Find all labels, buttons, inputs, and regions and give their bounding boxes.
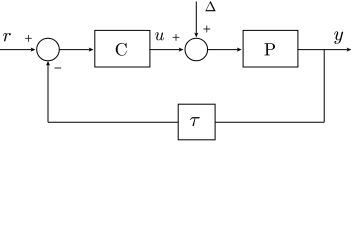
label r (3, 33, 11, 42)
block tau (178, 104, 215, 140)
label minus at S1 (54, 33, 61, 103)
arrowhead into block P (237, 48, 242, 52)
wire C to summing junction S2 (150, 49, 179, 51)
block P (243, 30, 298, 67)
arrowhead into S1 (31, 48, 36, 52)
label Delta (205, 1, 215, 11)
arrowhead Delta into S2 top (194, 33, 198, 38)
block C (95, 30, 150, 67)
label P (264, 43, 275, 55)
label plus at S2 left (173, 34, 180, 41)
wire left riser up to S1 (47, 64, 49, 122)
wire branch node down (323, 50, 325, 123)
arrowhead into block C (89, 48, 94, 52)
label y (334, 31, 343, 44)
summing junction S2 (185, 38, 208, 61)
label u (155, 32, 164, 40)
wire r input to summing junction S1 (0, 49, 31, 51)
wire bottom right to block tau (215, 121, 324, 123)
label plus at S2 top (203, 26, 210, 33)
wire S1 to block C (59, 49, 89, 51)
label C (116, 43, 127, 56)
wire S2 to block P (208, 49, 238, 51)
arrowhead into S2 left (179, 48, 184, 52)
summing junction S1 (37, 38, 60, 61)
arrowhead feedback into S1 bottom (46, 61, 50, 66)
wire tau to left riser (48, 121, 178, 123)
wire Delta input to S2 (195, 2, 197, 34)
arrowhead output y (347, 48, 352, 52)
wire P to output y (298, 49, 347, 51)
label tau (190, 117, 200, 126)
label plus at S1 (25, 35, 32, 42)
